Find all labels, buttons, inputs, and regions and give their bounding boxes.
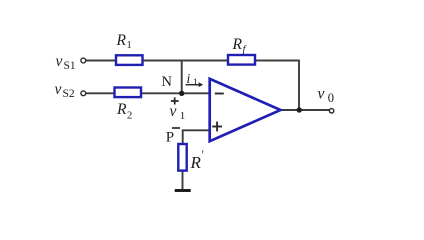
svg-text:1: 1 <box>127 40 132 51</box>
resistor R2 <box>115 88 142 98</box>
node N junction dot <box>179 91 184 96</box>
svg-text:0: 0 <box>328 91 334 105</box>
svg-text:R: R <box>116 101 127 118</box>
wire feedback vertical down to output node <box>298 61 300 111</box>
terminal v0 <box>329 109 333 113</box>
polarity minus above P <box>172 127 180 129</box>
svg-text:′: ′ <box>202 147 205 161</box>
op-amp non-inverting input plus sign <box>212 126 222 128</box>
svg-text:v: v <box>56 53 63 70</box>
ground <box>175 189 191 192</box>
resistor R1 <box>116 55 143 65</box>
terminal vS1 <box>81 58 86 63</box>
svg-text:v: v <box>318 86 325 103</box>
svg-text:P: P <box>166 130 174 146</box>
svg-text:v: v <box>55 81 62 98</box>
svg-text:2: 2 <box>127 111 132 122</box>
wire R1 right through feedback top line to output branch <box>142 60 300 62</box>
wire op-amp output to terminal <box>281 109 331 111</box>
op-amp U1 triangle <box>210 79 281 141</box>
wire R2 to op-amp inverting input <box>141 92 211 94</box>
svg-text:v: v <box>170 103 177 120</box>
svg-text:S1: S1 <box>64 60 76 72</box>
op-amp inverting input minus sign <box>215 93 224 95</box>
current arrow i1 <box>186 84 200 86</box>
svg-text:S2: S2 <box>63 88 75 100</box>
wire vS2 to R2 <box>86 92 116 94</box>
svg-text:R: R <box>190 153 202 172</box>
wire R' bottom to ground <box>182 171 184 190</box>
svg-text:R: R <box>232 36 243 53</box>
svg-text:i: i <box>187 71 191 86</box>
resistor Rf <box>228 55 255 65</box>
resistor R' (vertical) <box>178 144 186 171</box>
wire node P to op-amp non-inverting input <box>183 130 210 144</box>
svg-text:R: R <box>116 32 127 49</box>
terminal vS2 <box>81 91 86 96</box>
svg-text:1: 1 <box>193 77 198 88</box>
wire vertical from top line down to node N <box>181 61 183 94</box>
wire vS1 to R1 <box>86 60 117 62</box>
output node junction dot <box>297 107 302 112</box>
svg-text:N: N <box>162 74 173 90</box>
svg-text:1: 1 <box>180 110 186 122</box>
polarity plus at node N <box>171 100 179 102</box>
